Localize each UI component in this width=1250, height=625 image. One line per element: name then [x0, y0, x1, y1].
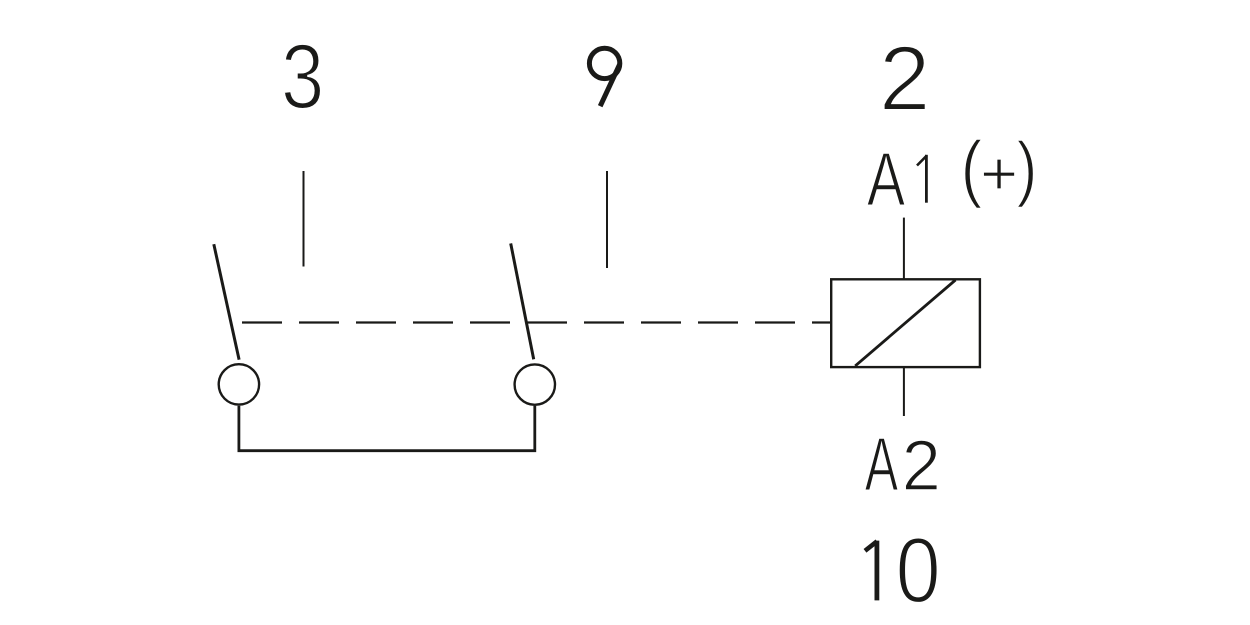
- svg-text:2: 2: [902, 425, 941, 505]
- svg-text:A: A: [867, 138, 905, 223]
- svg-text:(: (: [961, 126, 983, 209]
- svg-text:A: A: [865, 422, 898, 507]
- svg-text:0: 0: [896, 519, 941, 622]
- svg-text:+: +: [980, 140, 1018, 208]
- svg-text:): ): [1017, 129, 1038, 209]
- svg-text:3: 3: [281, 26, 324, 128]
- svg-text:2: 2: [879, 26, 931, 130]
